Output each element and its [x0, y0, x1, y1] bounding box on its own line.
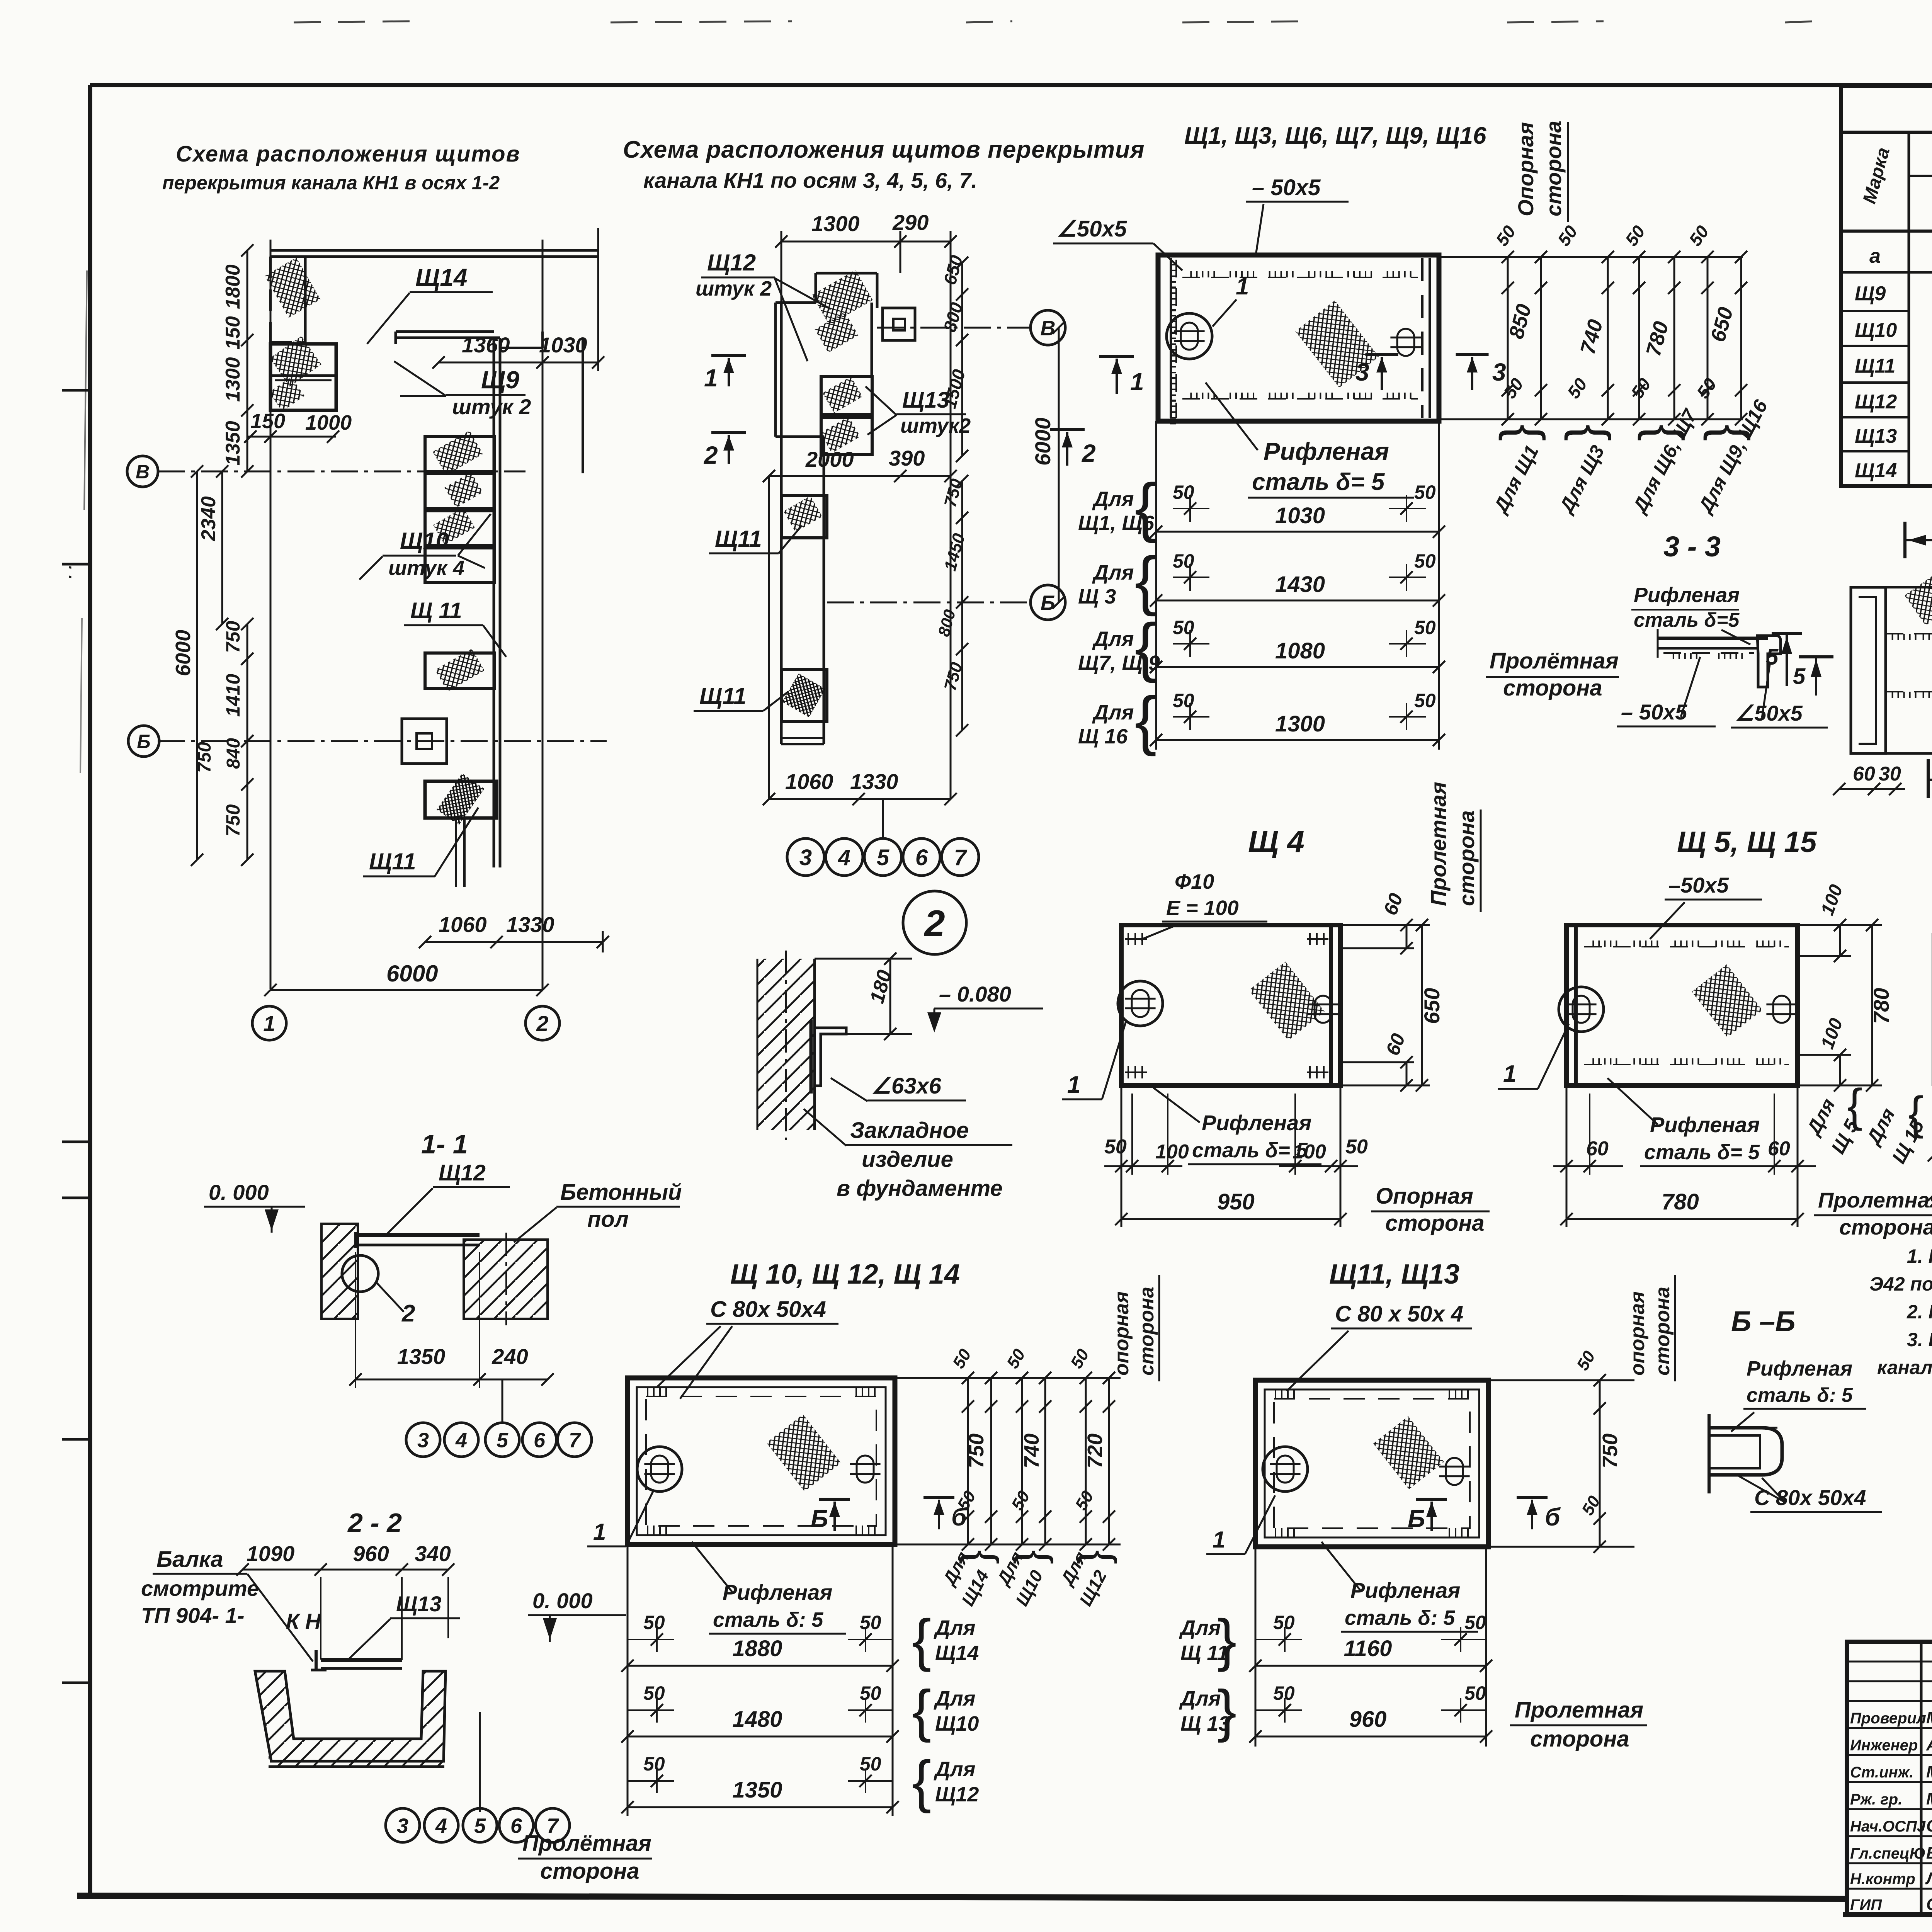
svg-text:Щ10: Щ10: [1855, 319, 1897, 342]
svg-text:Щ1, Щ3, Щ6, Щ7, Щ9, Щ16: Щ1, Щ3, Щ6, Щ7, Щ9, Щ16: [1184, 122, 1486, 149]
svg-text:50: 50: [1273, 1682, 1295, 1704]
svg-text:150: 150: [222, 316, 244, 350]
title block signature rows: [1847, 1661, 1932, 1663]
right dim chain 750 1450 800 750: [961, 481, 963, 730]
svg-text:50: 50: [1414, 690, 1436, 711]
svg-text:1: 1: [593, 1519, 606, 1545]
svg-text:750: 750: [222, 621, 244, 653]
svg-text:650: 650: [1420, 988, 1444, 1024]
dims bottom Щ4: [1121, 1085, 1122, 1227]
svg-text:1060: 1060: [439, 912, 487, 937]
svg-text:290: 290: [892, 210, 929, 235]
svg-text:1: 1: [1236, 273, 1249, 300]
section marks Б on Щ11 panel: [1416, 1498, 1447, 1501]
svg-text:Гл.спецЮ: Гл.спецЮ: [1850, 1845, 1925, 1862]
svg-text:{: {: [912, 1607, 931, 1672]
svg-text:Щ 16: Щ 16: [1078, 725, 1128, 748]
svg-text:Для: Для: [1092, 701, 1134, 724]
svg-text:Пролётная: Пролётная: [1490, 648, 1619, 673]
hatch blob Щ1: [1295, 300, 1379, 388]
svg-text:5: 5: [474, 1814, 486, 1837]
svg-text:в фундаменте: в фундаменте: [837, 1176, 1003, 1201]
svg-text:780: 780: [1869, 988, 1893, 1024]
svg-text:7: 7: [954, 845, 968, 870]
svg-text:перекрытия канала КН1 в осях: перекрытия канала КН1 в осях 1-2: [162, 172, 500, 194]
svg-text:Щ12: Щ12: [1855, 391, 1897, 413]
panel Щ1 right rib band: [1421, 258, 1423, 418]
detail 1 hatch: [1905, 569, 1932, 626]
panel Щ14 strip: [269, 257, 272, 344]
svg-text:100: 100: [1155, 1141, 1189, 1163]
hatch blob Щ4: [1249, 961, 1325, 1040]
bottom dim rows Щ10 panel: [627, 1544, 629, 1816]
svg-text:1350: 1350: [397, 1344, 446, 1369]
svg-text:1480: 1480: [732, 1707, 782, 1732]
svg-text:ТП 904- 1-: ТП 904- 1-: [141, 1603, 244, 1628]
svg-text:Щ10: Щ10: [400, 528, 449, 554]
svg-text:Б: Б: [1408, 1505, 1425, 1532]
svg-text:сталь δ=5: сталь δ=5: [1634, 609, 1740, 631]
svg-text:1330: 1330: [850, 769, 898, 794]
panel Щ10/12/14 rectangle: [628, 1378, 895, 1544]
axis Б line: [158, 740, 607, 742]
svg-text:2 - 2: 2 - 2: [347, 1508, 402, 1538]
svg-text:{: {: [1908, 1087, 1923, 1139]
section marks Б on Щ10 panel: [819, 1498, 850, 1501]
svg-text:3. Временная нормативная: 3. Временная нормативная нагрузка на пер…: [1907, 1329, 1932, 1350]
svg-text:∠50х5: ∠50х5: [1057, 216, 1127, 241]
bolt right Щ4: [1315, 996, 1332, 1023]
svg-text:Для: Для: [1179, 1616, 1221, 1639]
svg-text:6: 6: [534, 1429, 546, 1452]
svg-text:Моргунов: Моргунов: [1926, 1789, 1932, 1808]
hatch Щ12 top: [812, 270, 873, 325]
bottom dim rows Щ11 panel (1160/960): [1255, 1547, 1257, 1747]
svg-text:6: 6: [510, 1814, 522, 1837]
svg-text:изделие: изделие: [862, 1147, 953, 1172]
svg-text:Для: Для: [1092, 488, 1134, 511]
svg-text:30: 30: [1879, 763, 1901, 785]
svg-text:2. Приварку ребер осуществ: 2. Приварку ребер осуществлять непрерывн…: [1906, 1301, 1932, 1323]
svg-text:50: 50: [860, 1612, 881, 1633]
svg-text:Для: Для: [1179, 1687, 1221, 1710]
svg-text:Саакьянц: Саакьянц: [1926, 1816, 1932, 1835]
svg-text:750: 750: [1599, 1434, 1622, 1468]
svg-text:1360: 1360: [462, 333, 510, 357]
svg-text:60: 60: [1853, 763, 1875, 785]
dims right Щ5 (100/780/100): [1798, 924, 1882, 926]
column square plan B: [883, 308, 915, 340]
svg-text:Для: Для: [1092, 628, 1134, 651]
section mark 5 left of detail: [1799, 655, 1833, 658]
svg-text:Пролетная: Пролетная: [1818, 1188, 1932, 1212]
column square on axis Б: [402, 719, 447, 764]
dimension 2340: [221, 471, 223, 624]
svg-text:960: 960: [1349, 1707, 1387, 1732]
panel Щ1 bottom weld row: [1182, 398, 1418, 400]
svg-text:3: 3: [397, 1814, 408, 1837]
svg-text:3: 3: [799, 845, 812, 870]
section 1-1 deck plate: [358, 1233, 480, 1237]
panel corner weld ticks Щ11: [1275, 1389, 1276, 1398]
section 1-1 right block: [464, 1240, 548, 1319]
svg-text:750: 750: [965, 1434, 988, 1468]
svg-text:Нач.ОСПJ: Нач.ОСПJ: [1850, 1818, 1926, 1835]
svg-text:– 50х5: – 50х5: [1621, 700, 1687, 724]
svg-text:50: 50: [1464, 1612, 1486, 1633]
svg-text:1350: 1350: [222, 421, 244, 466]
svg-text:960: 960: [353, 1541, 389, 1566]
table header Сечение split: [1909, 175, 1932, 177]
svg-text:сталь δ= 5: сталь δ= 5: [1252, 469, 1385, 495]
axis verticals section 2-2: [320, 1577, 321, 1660]
svg-text:Бетонный: Бетонный: [560, 1180, 682, 1205]
dimension 180 embedded: [889, 959, 891, 1034]
svg-text:Рифленая: Рифленая: [1350, 1578, 1460, 1602]
svg-text:сторона: сторона: [1454, 810, 1479, 906]
svg-text:{: {: [1498, 424, 1555, 441]
svg-text:С 80х 50х4: С 80х 50х4: [1754, 1485, 1866, 1510]
svg-text:С 80 х 50х 4: С 80 х 50х 4: [1335, 1301, 1463, 1327]
svg-text:Схема расположения щитов: Схема расположения щитов: [176, 141, 520, 167]
axis circles 3-7 section 2-2: [386, 1808, 420, 1842]
section mark 1 left: [711, 354, 746, 357]
svg-text:0. 000: 0. 000: [532, 1588, 593, 1613]
bolt right Щ1: [1397, 329, 1414, 356]
panel Щ4 corner welds: [1128, 933, 1129, 945]
svg-text:1: 1: [1067, 1071, 1080, 1098]
svg-text:100: 100: [1293, 1141, 1326, 1163]
svg-text:1880: 1880: [732, 1636, 782, 1661]
svg-text:Щ11: Щ11: [699, 683, 747, 709]
svg-text:– 50х5: – 50х5: [1252, 175, 1321, 200]
svg-text:Н.контр: Н.контр: [1850, 1871, 1915, 1888]
section mark 5 at 3-3: [1786, 634, 1788, 686]
svg-text:Щ 13: Щ 13: [1180, 1712, 1230, 1735]
section mark 4 top: [1903, 522, 1906, 558]
svg-text:6000: 6000: [386, 961, 438, 986]
panel Щ11 plan A: [425, 653, 495, 689]
svg-text:канала g: канала g: [1877, 1357, 1932, 1378]
svg-text:50: 50: [1173, 690, 1194, 711]
svg-text:сталь δ= 5: сталь δ= 5: [1644, 1141, 1760, 1164]
svg-text:{: {: [1135, 470, 1157, 544]
svg-text:1090: 1090: [247, 1541, 295, 1566]
svg-text:Балка: Балка: [156, 1547, 223, 1572]
svg-text:7: 7: [569, 1429, 582, 1452]
bolt right Щ5: [1773, 996, 1790, 1023]
svg-text:Б: Б: [137, 731, 150, 752]
svg-text:1060: 1060: [785, 769, 833, 794]
page frame bottom heavy line: [77, 1896, 1848, 1899]
svg-text:Э42 по гост 9467- 75.: Э42 по гост 9467- 75.: [1869, 1273, 1932, 1295]
svg-text:50: 50: [643, 1682, 665, 1704]
hatch blob Щ5: [1692, 964, 1762, 1037]
svg-text:1300: 1300: [1275, 711, 1325, 736]
svg-text:50: 50: [1464, 1682, 1486, 1704]
right dim chain 650 800 1500: [961, 263, 963, 456]
title block signature columns: [1920, 1642, 1923, 1915]
right vertical dim columns Щ1 (850 740 780 650): [1439, 256, 1743, 258]
svg-text:50: 50: [1345, 1136, 1368, 1158]
svg-text:1300: 1300: [811, 211, 860, 236]
svg-text:1410: 1410: [222, 674, 244, 717]
svg-text:Андреева: Андреева: [1926, 1735, 1932, 1754]
svg-text:канала КН1 по осям 3, 4, 5, 6: канала КН1 по осям 3, 4, 5, 6, 7.: [643, 168, 977, 192]
svg-text:· ·: · ·: [62, 565, 79, 580]
svg-text:Щ12: Щ12: [439, 1160, 486, 1185]
svg-text:3: 3: [417, 1429, 429, 1452]
svg-text:{: {: [1564, 424, 1621, 441]
svg-text:60: 60: [1768, 1138, 1790, 1160]
svg-text:{: {: [912, 1749, 931, 1814]
axis circle 1: [252, 1006, 286, 1040]
axis Б line plan B: [827, 602, 1030, 604]
section mark 2 right: [1050, 428, 1085, 431]
hatch blob Щ10 panel: [766, 1414, 841, 1492]
hatch Щ10 panels: [433, 430, 483, 475]
axis circle Б: [128, 726, 159, 757]
svg-text:Щ 11: Щ 11: [410, 598, 462, 623]
svg-text:Макарова: Макарова: [1926, 1708, 1932, 1727]
svg-text:Щ11: Щ11: [1855, 355, 1895, 378]
svg-text:50: 50: [643, 1612, 665, 1633]
svg-text:Щ11: Щ11: [369, 849, 416, 874]
detail 1 weld rows: [1886, 633, 1932, 634]
hatch Щ9: [270, 336, 321, 386]
svg-text:Щ14: Щ14: [1855, 459, 1897, 482]
svg-text:Б –Б: Б –Б: [1731, 1305, 1796, 1337]
svg-text:Для: Для: [934, 1687, 975, 1710]
svg-text:Опорная: Опорная: [1514, 122, 1538, 216]
table Ведомость элементов frame: [1841, 86, 1932, 486]
bolt right Щ10 panel: [857, 1456, 874, 1483]
dims right Щ4 (60/650/60): [1340, 924, 1430, 926]
axis circle В: [127, 456, 158, 487]
svg-text:50: 50: [1173, 481, 1194, 503]
svg-text:2: 2: [536, 1011, 548, 1036]
svg-text:1000: 1000: [305, 411, 352, 434]
bolt callout circle Щ5: [1559, 987, 1604, 1032]
drain lines below panel: [455, 818, 457, 887]
svg-text:E = 100: E = 100: [1166, 896, 1239, 920]
svg-text:Бодрченко: Бодрченко: [1926, 1844, 1932, 1862]
bolt callout circle Щ1: [1167, 313, 1212, 359]
svg-text:840: 840: [223, 738, 244, 769]
svg-text:50: 50: [1414, 550, 1436, 572]
svg-text:2000: 2000: [805, 447, 854, 471]
svg-text:50: 50: [1173, 617, 1194, 638]
svg-text:740: 740: [1020, 1434, 1043, 1468]
svg-text:{: {: [1135, 684, 1157, 757]
svg-text:1030: 1030: [1275, 503, 1325, 528]
axis В line plan B: [877, 327, 1030, 329]
svg-text:Осташевский: Осташевский: [1926, 1895, 1932, 1914]
svg-text:780: 780: [1662, 1189, 1699, 1214]
svg-text:750: 750: [194, 742, 215, 773]
panel Щ1 top weld row: [1182, 277, 1418, 278]
svg-text:штук2: штук2: [900, 414, 971, 437]
svg-text:Проверил: Проверил: [1850, 1710, 1926, 1727]
svg-text:Б: Б: [811, 1505, 828, 1532]
axis circles 3 4 5 6 7 plan B: [787, 838, 824, 876]
section 2-2 trough: [255, 1671, 446, 1761]
dimension 6000 between axes: [1058, 328, 1060, 602]
svg-text:сторона: сторона: [1839, 1215, 1932, 1239]
svg-text:–50х5: –50х5: [1668, 873, 1729, 897]
svg-text:Лученко: Лученко: [1925, 1869, 1932, 1888]
svg-text:50: 50: [860, 1682, 881, 1704]
dims bottom Щ5: [1566, 1085, 1568, 1227]
callout circle 2 section 1-1: [342, 1255, 378, 1292]
section 1-1 left wall: [321, 1224, 358, 1319]
svg-text:Ф10: Ф10: [1175, 870, 1214, 893]
svg-text:Опорная: Опорная: [1376, 1184, 1473, 1209]
panel Щ5 rectangle: [1566, 925, 1798, 1085]
svg-text:1350: 1350: [732, 1777, 782, 1803]
svg-text:390: 390: [889, 446, 925, 470]
svg-text:Щ 11: Щ 11: [1180, 1641, 1228, 1665]
panels Щ10 штук 4: [425, 437, 495, 471]
svg-text:сталь δ: 5: сталь δ: 5: [713, 1608, 823, 1631]
svg-text:Рифленая: Рифленая: [723, 1580, 832, 1604]
panel Щ11 plan B upper: [781, 495, 827, 538]
embedded part centerline: [785, 951, 787, 1140]
svg-text:150: 150: [250, 410, 285, 433]
big circle 2 plan B: [903, 891, 966, 954]
svg-text:опорная: опорная: [1626, 1291, 1649, 1376]
svg-text:6000: 6000: [1031, 417, 1055, 466]
svg-text:Закладное: Закладное: [850, 1118, 969, 1143]
svg-text:Рж. гр.: Рж. гр.: [1850, 1791, 1902, 1808]
svg-text:2: 2: [1082, 439, 1096, 467]
svg-text:1. Конструкции сварные. Св: 1. Конструкции сварные. Сварку производи…: [1907, 1245, 1932, 1267]
svg-text:2: 2: [923, 903, 945, 944]
svg-text:С 80х 50х4: С 80х 50х4: [710, 1297, 826, 1322]
svg-text:Щ9: Щ9: [1855, 282, 1886, 305]
svg-text:50: 50: [1104, 1136, 1127, 1158]
svg-text:750: 750: [222, 804, 244, 837]
svg-text:50: 50: [1414, 481, 1436, 503]
svg-text:сталь δ: 5: сталь δ: 5: [1747, 1384, 1853, 1406]
section mark 3 right: [1456, 353, 1489, 356]
svg-text:Для: Для: [934, 1616, 975, 1639]
svg-text:Для: Для: [1092, 561, 1134, 584]
svg-text:1080: 1080: [1275, 638, 1325, 663]
panel corner weld ticks: [647, 1386, 648, 1396]
svg-text:Б: Б: [1041, 591, 1055, 614]
duct walls right side plan A: [493, 338, 495, 867]
svg-text:штук 2: штук 2: [696, 277, 772, 300]
svg-text:Пролётная: Пролётная: [522, 1831, 651, 1856]
svg-text:50: 50: [860, 1753, 881, 1775]
bolt callout circle Щ11 panel: [1263, 1447, 1308, 1492]
fold marks left margin: [62, 389, 90, 392]
braces Для Щ14 Щ10 Щ12 под columns: [959, 1550, 1007, 1565]
section 2-2 bottom slab: [269, 1750, 444, 1767]
svg-text:4: 4: [435, 1814, 447, 1837]
dimension 6000 vertical: [196, 471, 198, 860]
svg-text:Рифленая: Рифленая: [1650, 1112, 1760, 1137]
svg-text:5: 5: [1793, 664, 1806, 689]
svg-text:2: 2: [401, 1300, 415, 1327]
Б-Б channel drawing: [1708, 1414, 1711, 1493]
svg-text:сторона: сторона: [540, 1859, 639, 1884]
svg-text:сторона: сторона: [1541, 121, 1566, 216]
svg-text:Щ 3: Щ 3: [1078, 585, 1116, 608]
3-3 detail drawing: [1658, 637, 1768, 640]
svg-text:Щ12: Щ12: [935, 1783, 979, 1806]
section mark 1 right: [1099, 355, 1134, 358]
svg-text:6000: 6000: [172, 630, 195, 676]
svg-text:5: 5: [877, 845, 889, 870]
svg-text:0. 000: 0. 000: [209, 1180, 269, 1204]
scan streaks top edge: [294, 21, 410, 22]
svg-text:Щ14: Щ14: [415, 264, 467, 291]
axis В line: [158, 471, 526, 473]
svg-text:1300: 1300: [222, 357, 244, 402]
section mark 4 bottom: [1927, 759, 1930, 798]
svg-text:1: 1: [704, 364, 718, 392]
dimensions 750 1410 lower left: [247, 624, 248, 741]
svg-text:смотрите: смотрите: [141, 1576, 259, 1600]
svg-text:1030: 1030: [539, 333, 587, 357]
right dim 750 Щ11 panel: [1488, 1379, 1634, 1381]
svg-text:1: 1: [1130, 368, 1144, 396]
svg-text:Макарова: Макарова: [1926, 1762, 1932, 1781]
svg-text:Рифленая: Рифленая: [1634, 583, 1740, 607]
svg-text:ГИП: ГИП: [1850, 1896, 1882, 1913]
svg-text:В: В: [136, 461, 150, 483]
panel Щ11 lower plan A: [425, 781, 497, 818]
svg-text:∠63х6: ∠63х6: [871, 1073, 942, 1099]
svg-text:3: 3: [1355, 358, 1369, 386]
axis circles 3-7 section 1-1: [406, 1423, 440, 1457]
svg-text:В: В: [1041, 316, 1056, 340]
svg-text:4: 4: [455, 1429, 467, 1452]
svg-text:сторона: сторона: [1651, 1287, 1674, 1376]
svg-text:{: {: [1847, 1080, 1862, 1131]
svg-text:6: 6: [915, 845, 928, 870]
svg-text:1: 1: [1213, 1527, 1225, 1553]
svg-text:Ст.инж.: Ст.инж.: [1850, 1764, 1913, 1781]
right dim columns Щ10 panel (750/740/720): [895, 1377, 1121, 1379]
svg-text:сторона: сторона: [1385, 1211, 1485, 1236]
panel Щ11 plan B lower: [781, 669, 827, 721]
svg-text:Щ13: Щ13: [1855, 425, 1897, 447]
svg-text:3: 3: [1492, 358, 1506, 386]
svg-text:1- 1: 1- 1: [421, 1129, 468, 1159]
axis circle Б plan B: [1031, 585, 1065, 620]
bolt callout circle Щ4: [1118, 981, 1163, 1026]
panels Щ13: [821, 377, 872, 415]
svg-text:1430: 1430: [1275, 572, 1325, 597]
svg-text:Щ 4: Щ 4: [1248, 824, 1304, 859]
panel Щ5 weld rows: [1584, 946, 1789, 947]
dim rows below Щ1 (1030/1430/1080/1300): [1155, 421, 1157, 750]
dimensions 840 750 bottom left: [247, 741, 248, 860]
panel Щ1 left rib band: [1170, 258, 1172, 418]
section 2-2 deck plate: [321, 1658, 402, 1662]
plan B outline strip: [774, 303, 777, 437]
svg-text:240: 240: [492, 1344, 528, 1369]
svg-text:Пролетная: Пролетная: [1426, 782, 1451, 906]
svg-text:4: 4: [838, 845, 850, 870]
svg-text:Рифленая: Рифленая: [1264, 437, 1389, 465]
svg-text:а: а: [1869, 245, 1881, 267]
hatch blob Щ11 panel: [1373, 1416, 1444, 1489]
panel Щ4 rectangle: [1121, 925, 1340, 1085]
